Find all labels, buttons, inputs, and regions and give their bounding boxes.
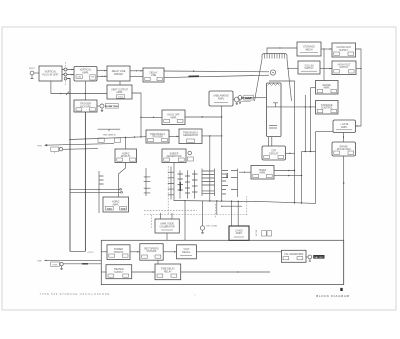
wire: B6 to B7 <box>169 136 179 138</box>
wire: B16 to B19 pin <box>157 260 159 264</box>
switch ladder L1 <box>202 169 215 197</box>
wire: pin between delay driver and vert output <box>119 81 121 85</box>
wire: B13 bottom pin <box>166 233 168 240</box>
box: B16 rectifiers <box>140 244 163 261</box>
box: VERTICAL PLUG-IN UNIT <box>39 66 62 81</box>
wire: output amp right elbow down trigger bus <box>132 93 142 137</box>
svg-text:RELAY: RELAY <box>164 270 172 273</box>
connector: cal out circle and dark label <box>306 255 325 261</box>
box: B6 time-base A trigger <box>146 130 169 143</box>
wire: CRT circuit output right <box>286 153 295 155</box>
svg-text:AMPL: AMPL <box>112 203 119 206</box>
CRT funnel right slant <box>287 59 292 101</box>
wire: long vertical bus x85.4 (pickoff down) <box>84 112 86 251</box>
wire: delay driver to delay line (lower) <box>130 76 143 78</box>
switch wafer W3 <box>168 167 174 200</box>
svg-text:AMPL: AMPL <box>236 232 243 235</box>
wire: lower bus y201 <box>174 200 316 204</box>
svg-text:TIME BASE A: TIME BASE A <box>103 133 117 136</box>
CRT storage mesh inner rectangle <box>267 83 282 137</box>
svg-text:INPUT: INPUT <box>29 68 36 70</box>
box: DELAY LINE <box>143 68 164 82</box>
wire: B8 bottom pin to lower bus <box>173 163 175 201</box>
wire: vertical amp to delay driver (lower) <box>97 76 107 78</box>
connector: unblanking circle and intensity label <box>233 97 253 104</box>
connector: geometry adjust circle and label <box>238 95 266 103</box>
label: trigger input <box>37 145 48 148</box>
footer: B symbol <box>340 288 342 291</box>
wire: segment y206 <box>221 206 242 207</box>
label: vertical text and small boxes right of B20 <box>256 229 272 236</box>
label: LINE input <box>37 260 47 263</box>
svg-text:+225 V: +225 V <box>87 252 94 254</box>
svg-text:MESH: MESH <box>306 48 313 51</box>
box: VERTICAL AMPLIFIER <box>74 67 97 82</box>
svg-text:AMPL: AMPL <box>170 116 177 119</box>
wire: bottom tie of long buses <box>70 251 94 254</box>
wire: into B15 from enclosure edge <box>101 251 107 253</box>
footer: BLOCK DIAGRAM text <box>316 294 349 298</box>
box: B9 horizontal display <box>115 149 137 163</box>
CRT envelope top edge and right edge bus <box>269 81 295 203</box>
wire: R7 left pin from x315.6 <box>316 131 333 133</box>
wire: long vertical bus from vertical amp area x70 <box>67 79 70 252</box>
component: B8 right side circle and box <box>188 151 194 161</box>
box: R8 erase pulse generator <box>332 142 356 156</box>
wire: line power upper <box>45 259 102 261</box>
node: vertical INPUT label <box>29 68 36 70</box>
wire: CRT grid to R3 <box>287 67 298 69</box>
wire: into B5 <box>141 117 162 119</box>
wire: B17 output long to B_sg <box>196 251 281 253</box>
wire: trigger bus to time-base A trigger <box>69 136 146 140</box>
svg-text:SUPPLY: SUPPLY <box>339 49 349 52</box>
box: R5 erase amplifier <box>316 81 339 95</box>
wire: sweep line pair to switch (lower) <box>70 191 123 193</box>
switch wafer W2 <box>144 168 151 196</box>
wire: stub verticals from bus <box>217 201 232 226</box>
wire: B_dp outputs right <box>274 170 295 172</box>
svg-text:LINE: LINE <box>151 74 157 77</box>
wire: vertical from R1-R2 link down to R5 top <box>323 49 325 81</box>
svg-text:SUPPLY: SUPPLY <box>304 67 314 70</box>
label: norm trig dark box <box>105 104 118 109</box>
wire: delay line to CRT vertical plate (upper) <box>164 70 269 72</box>
svg-text:FUSE: FUSE <box>53 264 59 266</box>
wire: unblanking vertical x221.7 <box>221 106 223 201</box>
wire: right-side loop R2 to R7 <box>356 49 362 127</box>
wire: vertical bus x301 down <box>301 152 303 204</box>
box: R4 high voltage supply <box>332 61 356 75</box>
box: R1 storage mesh supply <box>297 42 321 56</box>
svg-text:TYPE 549 STORAGE OSCILLOSCOPE: TYPE 549 STORAGE OSCILLOSCOPE <box>40 292 111 296</box>
wire: B16 to B17 <box>163 251 176 253</box>
svg-text:CIRCUIT: CIRCUIT <box>269 152 279 155</box>
svg-text:LINE: LINE <box>37 261 42 263</box>
wire: ext trig line <box>45 144 114 146</box>
svg-text:SUPPLY: SUPPLY <box>114 271 124 274</box>
wire: CRT pins down to CRT circuit box <box>268 137 271 146</box>
dashed stub below bus <box>214 204 216 218</box>
interface connector circles between plug-in and amplifier <box>64 62 67 86</box>
box: B19 fan motor <box>155 264 181 280</box>
svg-text:V154: V154 <box>118 97 124 99</box>
svg-text:EXT IN: EXT IN <box>256 229 258 236</box>
switch ladder L2 <box>222 169 238 198</box>
box: B_dp horizontal amplifier input <box>251 166 274 180</box>
box: B13 calibrator <box>155 219 179 233</box>
connector: external horizontal input <box>200 226 217 234</box>
wire: line power lower <box>63 263 101 265</box>
wire: delay line to CRT vertical plate (lower) <box>164 75 269 77</box>
wire: vertical amp bottom pin down to trigger pickoff <box>85 81 86 100</box>
wire: into B18 <box>101 271 106 273</box>
svg-text:BLOCK DIAGRAM: BLOCK DIAGRAM <box>316 294 349 298</box>
box: B18 heater supply <box>106 265 132 279</box>
wire: CRT mesh to R6 input <box>267 106 316 107</box>
component: fuse box and circle <box>51 262 64 270</box>
wire: plug-in to vertical amplifier (upper) <box>62 69 74 71</box>
wire: B7 output right <box>202 135 222 136</box>
svg-text:AMPL: AMPL <box>218 97 225 100</box>
box: B17 regulators <box>177 245 197 259</box>
wire: vertical bus x310 <box>309 88 311 152</box>
footer: page mark <box>195 293 197 297</box>
CRT cap <box>262 54 287 60</box>
box: B7 time-base A generator <box>179 129 202 144</box>
box: TRIGGER PICKOFF <box>74 100 97 112</box>
bracket: TIME BASE A group label <box>98 129 121 142</box>
wire: dashed y210 line <box>144 209 197 211</box>
svg-text:TRIG: TRIG <box>37 146 42 148</box>
wire: B15 to B16 <box>130 251 140 253</box>
wire: vertical bus x315.6 down <box>315 132 317 204</box>
box: B5 trigger amplifier <box>162 110 185 125</box>
box: B_un unblanking <box>209 91 233 106</box>
svg-text:AMPL: AMPL <box>259 172 266 175</box>
wire: B19 output <box>181 271 270 272</box>
wire: B18 to B19 <box>132 271 155 273</box>
wire: B5 output to unblanking vertical <box>185 116 222 117</box>
wire: line trigger <box>63 148 98 150</box>
box: vertical output amplifier <box>107 85 132 99</box>
dashed switch outline <box>144 196 247 228</box>
wire: into B_dp from switch <box>239 172 251 173</box>
box: B_sg calibrator output <box>281 250 306 262</box>
svg-text:GENERATOR: GENERATOR <box>167 155 182 158</box>
switch block wafers W4 <box>178 170 198 198</box>
wire: delay driver to delay line (upper) <box>130 70 143 72</box>
connector J1 vertical input <box>30 71 39 78</box>
box: CRT circuit (A) <box>262 146 286 160</box>
CRT gun circle <box>270 70 275 75</box>
svg-text:TRANSF: TRANSF <box>114 251 124 254</box>
CRT funnel left slant <box>255 59 263 101</box>
wire: R7 to R8 pin <box>343 133 344 143</box>
wire: R5 left pin <box>310 87 315 89</box>
switch wafer W1 <box>99 171 104 213</box>
wire: B20 top pin <box>237 201 239 226</box>
svg-text:SUPPLY: SUPPLY <box>339 66 349 69</box>
wire: bus down into B9 <box>125 138 127 150</box>
svg-text:AMPL: AMPL <box>116 91 123 94</box>
wire: R8 bottom long vertical to power section <box>343 156 344 285</box>
svg-text:CAL OUT: CAL OUT <box>314 256 324 259</box>
wire: plug-in to vertical amplifier (lower) <box>62 74 74 76</box>
wire: vertical bus x305 <box>304 95 306 152</box>
wire: bus down to ext connector <box>201 201 203 226</box>
box: DELAY-LINE DRIVER <box>107 66 130 81</box>
svg-text:EXT CONN: EXT CONN <box>206 226 217 228</box>
wire: R3 to R4 <box>320 68 332 70</box>
dashed linkage line x168 <box>167 166 169 215</box>
wire: vertical from B7 junction down to switch <box>209 136 211 201</box>
wire: tie at y151.5 <box>302 151 316 152</box>
wire: plug-in bottom elbow to delay driver input <box>51 81 107 94</box>
wire: R1 to R2 <box>321 48 332 50</box>
svg-text:REGUL: REGUL <box>182 251 191 254</box>
svg-text:DISPLAY: DISPLAY <box>121 155 131 158</box>
power section enclosure <box>101 240 343 284</box>
svg-text:DRIVER: DRIVER <box>114 73 123 76</box>
mark: slash on wire <box>66 92 69 96</box>
connector: pickoff adjust circle <box>97 104 104 112</box>
wire: sweep line pair to switch (upper) <box>69 188 121 190</box>
footer: left title text <box>40 292 111 296</box>
wire: B13 top pins <box>161 213 172 219</box>
wire: vertical x185 down to power enclosure <box>184 200 185 240</box>
svg-text:CAL WAVEFORM: CAL WAVEFORM <box>284 253 303 256</box>
wire: CRT cathode up to storage supply R1 <box>267 47 297 53</box>
wire: B9 bottom to B10 top with jog <box>118 163 125 198</box>
box: R2 flood gun supply <box>332 43 356 57</box>
wire: vertical amp to delay driver (upper) <box>97 70 107 72</box>
box: R3 collimation supply <box>298 61 320 74</box>
svg-text:AMPL: AMPL <box>82 71 89 74</box>
box: B20 low voltage power supply <box>229 226 249 240</box>
svg-text:NORM TRIG: NORM TRIG <box>106 106 119 108</box>
box: R7 plus gate amp <box>333 120 356 133</box>
box: B15 power transformer <box>107 245 130 260</box>
svg-text:FILTERS: FILTERS <box>147 250 157 253</box>
svg-text:CALIBRATOR: CALIBRATOR <box>160 225 175 228</box>
svg-text:GENERATOR: GENERATOR <box>183 134 198 137</box>
svg-text:AMPL: AMPL <box>323 87 330 90</box>
svg-text:AMPL: AMPL <box>341 126 348 129</box>
box: B10 sweep magnifier <box>103 197 129 212</box>
box: R6 storage control <box>316 101 339 115</box>
box: B8 sweep generator <box>162 149 186 163</box>
component: trig coupling box and circle <box>51 147 63 154</box>
svg-text:PLUG-IN UNIT: PLUG-IN UNIT <box>43 73 59 76</box>
svg-text:INTENSITY: INTENSITY <box>241 98 253 100</box>
